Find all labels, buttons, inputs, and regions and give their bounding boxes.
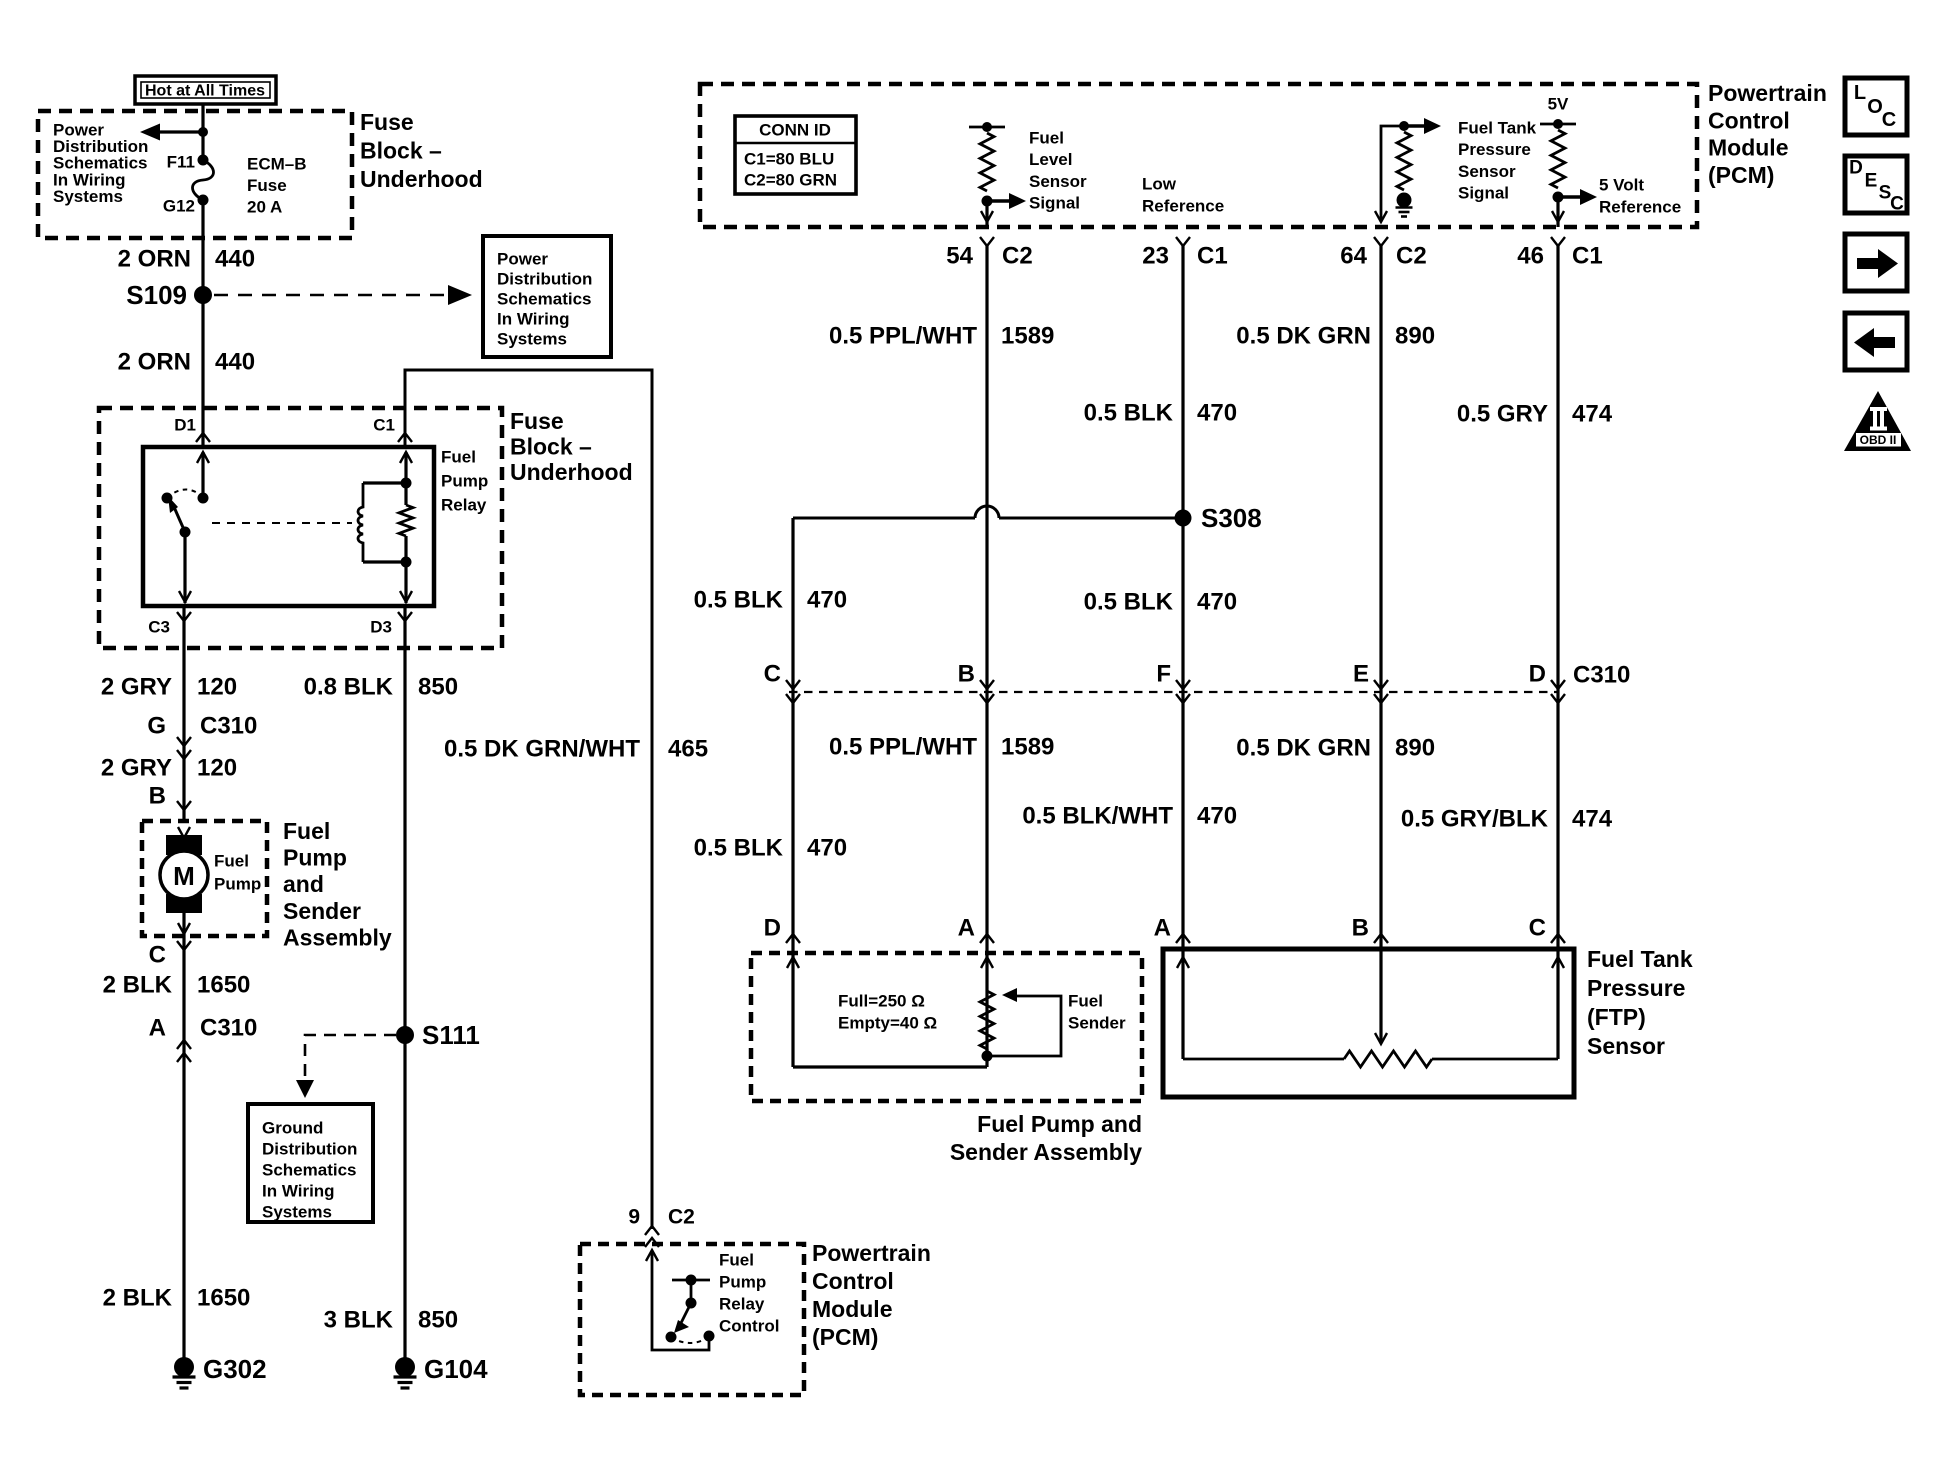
svg-text:0.5 BLK/WHT: 0.5 BLK/WHT [1022,803,1173,830]
svg-text:A: A [149,1015,166,1042]
svg-text:5V: 5V [1548,95,1569,114]
icon box arrow left [1845,313,1907,370]
svg-text:470: 470 [807,587,847,614]
internal arrow down pin 64 [1375,211,1387,222]
svg-text:Sender: Sender [283,898,361,924]
node junction at branch [198,127,208,137]
relay coil top node [401,478,412,489]
R3 bottom node [1553,192,1564,203]
svg-text:Pump: Pump [719,1273,766,1292]
connector chevron pin 23 [1176,237,1190,246]
svg-text:C: C [1890,194,1904,215]
svg-text:Reference: Reference [1599,198,1681,217]
PCM switch blade [680,1303,691,1325]
svg-text:1650: 1650 [197,1285,250,1312]
relay actuation dashed link [212,522,352,524]
ftp internal arrow up A [1177,957,1189,968]
R1 top node [982,122,992,132]
svg-text:(PCM): (PCM) [812,1324,878,1350]
svg-text:1650: 1650 [197,972,250,999]
svg-text:Control: Control [812,1268,894,1294]
relay switch dashed travel arc [167,490,204,499]
svg-text:465: 465 [668,736,708,763]
svg-text:0.5 DK GRN: 0.5 DK GRN [1236,323,1371,350]
reference box ground distribution schematics [248,1104,373,1222]
wire B pin54 to sender A [985,244,988,1067]
fuel pump motor brush top [166,835,202,855]
PCM switch blade arrowhead [674,1320,689,1333]
PCM driver wire [652,1250,709,1350]
svg-text:C2: C2 [1002,243,1033,270]
svg-text:Sender Assembly: Sender Assembly [950,1139,1142,1165]
sender bottom link [793,1065,987,1068]
fuse ECM-B 20A symbol [193,160,214,200]
svg-text:B: B [1352,915,1369,942]
svg-text:C2: C2 [668,1206,695,1229]
svg-text:C2: C2 [1396,243,1427,270]
resistor R1 fuel level [980,133,994,191]
svg-text:C1=80 BLU: C1=80 BLU [744,150,834,169]
R3 top node [1553,119,1563,129]
connector C2 chevrons at PCM [645,1226,659,1235]
svg-text:Systems: Systems [497,330,567,349]
wire D pin46 to ftp C [1556,244,1559,1059]
relay internal arrow down at C3 [179,591,191,602]
svg-text:C310: C310 [200,713,257,740]
relay switch output wire [183,532,186,603]
dashed box PCM (top) [700,84,1697,227]
connector chevron pin 46 [1551,237,1565,246]
R2 top node [1399,121,1409,131]
svg-text:Fuel Tank: Fuel Tank [1587,946,1693,972]
svg-text:C: C [1529,915,1546,942]
relay internal arrow up at D1 [197,452,209,463]
svg-text:D: D [764,915,781,942]
svg-text:Full=250 Ω: Full=250 Ω [838,992,925,1011]
svg-text:Fuse: Fuse [247,176,287,195]
svg-text:0.5 GRY: 0.5 GRY [1457,401,1548,428]
svg-text:Empty=40 Ω: Empty=40 Ω [838,1014,937,1033]
svg-text:C310: C310 [200,1015,257,1042]
svg-text:470: 470 [807,835,847,862]
resistor R3 5v ref [1551,130,1565,188]
R2 internal ground [1397,193,1412,208]
connector chevron C3 [177,612,191,621]
internal arrow down pin 54 [981,211,993,222]
svg-text:Pump: Pump [214,875,261,894]
svg-text:E: E [1353,661,1369,688]
svg-text:Fuel: Fuel [1068,992,1103,1011]
svg-text:(FTP): (FTP) [1587,1004,1646,1030]
svg-text:OBD II: OBD II [1860,433,1897,447]
connector chevron A ftp [1176,934,1190,943]
svg-text:474: 474 [1572,401,1613,428]
reference box power distribution schematics [483,236,611,357]
svg-text:Pump: Pump [441,472,488,491]
PCM switch pivot [686,1298,697,1309]
splice S109 [194,286,212,304]
fuel pump output wire [182,913,185,936]
connector chevron B ftp [1374,934,1388,943]
dashed box fuse block underhood (relay) [99,408,502,648]
svg-text:D: D [1529,661,1546,688]
svg-text:Assembly: Assembly [283,924,392,950]
relay resistor upper stub [404,483,407,505]
svg-text:O: O [1867,96,1883,118]
svg-text:Schematics: Schematics [497,290,592,309]
connector chevron C1 [398,433,412,442]
splice wire S308 horizontal [793,517,1183,520]
dashed box PCM (bottom) [580,1244,804,1395]
connector chevron B [177,801,191,810]
arrow down to ground distribution box [296,1080,314,1098]
relay switch blade [174,507,185,532]
arrow right to power distribution box [448,285,472,305]
svg-text:Pressure: Pressure [1587,975,1685,1001]
svg-text:470: 470 [1197,589,1237,616]
dashed reference wire from S111 [305,1035,396,1082]
icon OBD II triangle [1844,391,1911,451]
svg-text:In Wiring: In Wiring [262,1182,335,1201]
wire pin 46 internal [1556,197,1559,227]
svg-text:D3: D3 [370,618,392,637]
connector chevron pin 54 [980,237,994,246]
svg-text:0.5 PPL/WHT: 0.5 PPL/WHT [829,734,977,761]
relay coil feed wire [404,452,407,483]
svg-text:2 GRY: 2 GRY [101,755,172,782]
svg-text:0.5 BLK: 0.5 BLK [1084,400,1174,427]
svg-text:Fuel: Fuel [1029,129,1064,148]
svg-text:9: 9 [628,1206,640,1229]
svg-text:440: 440 [215,349,255,376]
svg-text:Low: Low [1142,175,1177,194]
dashed reference wire from S109 [214,294,448,297]
wire F pin23 to ftp A [1181,244,1184,1059]
conn id box [735,116,856,194]
svg-text:Pressure: Pressure [1458,140,1531,159]
svg-text:Block –: Block – [360,138,442,164]
PCM switch stem [690,1280,693,1303]
svg-text:Sender: Sender [1068,1014,1126,1033]
svg-text:2 ORN: 2 ORN [118,349,191,376]
ftp sense resistor [1344,1051,1432,1067]
svg-text:Sensor: Sensor [1458,162,1516,181]
svg-text:54: 54 [946,243,973,270]
svg-text:474: 474 [1572,806,1613,833]
icon box arrow right [1845,234,1907,291]
svg-text:Fuse: Fuse [510,408,564,434]
svg-text:S308: S308 [1201,503,1262,533]
node G12 [198,195,209,206]
relay switch feed wire [201,452,204,498]
svg-text:B: B [149,783,166,810]
svg-text:Module: Module [1708,135,1789,161]
wire C1 feed to PCM control [405,370,652,1229]
svg-text:890: 890 [1395,323,1435,350]
wire 2 BLK 1650 upper [182,936,185,1367]
svg-text:Fuel Tank: Fuel Tank [1458,119,1537,138]
svg-text:3 BLK: 3 BLK [324,1307,394,1334]
svg-text:0.5 BLK: 0.5 BLK [694,587,784,614]
svg-text:S111: S111 [422,1020,480,1050]
svg-text:Systems: Systems [262,1203,332,1222]
svg-text:Systems: Systems [53,187,123,206]
svg-text:Distribution: Distribution [497,270,592,289]
svg-text:Fuel: Fuel [719,1251,754,1270]
svg-text:2 BLK: 2 BLK [103,972,173,999]
fuel pump feed arrow [178,827,190,838]
node F11 [198,155,209,166]
svg-text:64: 64 [1340,243,1367,270]
relay internal arrow down at D3 [400,591,412,602]
R1 bottom node [982,196,993,207]
svg-text:Signal: Signal [1029,194,1080,213]
relay coil output wire [404,562,407,603]
PCM switch contact right [704,1331,715,1342]
resistor R2 ftp pull [1397,132,1411,190]
wire 0.8 BLK 850 [403,606,406,1367]
svg-text:D: D [1849,158,1863,179]
ftp internal arrow up C [1552,957,1564,968]
svg-text:E: E [1865,171,1878,192]
svg-text:850: 850 [418,1307,458,1334]
svg-text:M: M [173,861,195,891]
dashed box fuse block underhood (top) [38,111,352,238]
svg-text:Fuel: Fuel [283,818,330,844]
svg-text:Pump: Pump [283,845,347,871]
connector C310 G chevrons [177,737,191,746]
relay switch common contact [180,527,191,538]
motor M circle [160,851,208,899]
R1 signal arrowhead [1009,193,1026,209]
sender internal arrow up D [787,957,799,968]
svg-text:2 BLK: 2 BLK [103,1285,173,1312]
icon box LOC [1845,78,1907,135]
svg-text:C: C [1882,109,1896,131]
svg-text:Signal: Signal [1458,184,1509,203]
PCM internal arrow up [646,1250,658,1261]
R3 ref arrowhead [1580,189,1597,205]
R1 signal arrow line [987,199,1010,202]
svg-text:Ground: Ground [262,1119,323,1138]
svg-text:C1: C1 [1572,243,1603,270]
sender internal arrow up A [981,957,993,968]
svg-text:G12: G12 [163,197,195,216]
svg-text:and: and [283,871,324,897]
svg-text:Hot at All Times: Hot at All Times [145,83,265,100]
connector chevron pin 64 [1374,237,1388,246]
fuel pump output arrow [178,923,190,934]
svg-text:(PCM): (PCM) [1708,162,1774,188]
svg-text:CONN ID: CONN ID [759,121,831,140]
splice S111 [396,1026,414,1044]
svg-text:A: A [1154,915,1171,942]
svg-text:120: 120 [197,674,237,701]
relay switch blade arrowhead [168,496,178,513]
R3 top stub [1540,123,1576,126]
label box Hot at All Times [135,76,276,104]
svg-text:C3: C3 [148,618,170,637]
wire E pin64 to ftp B [1379,244,1382,1042]
svg-text:S109: S109 [126,280,187,310]
svg-text:F: F [1156,661,1171,688]
dashed box fuel pump and sender assembly [751,953,1142,1101]
wire pin 54 internal [985,201,988,227]
connector C310 dashed line [789,691,1558,693]
icon box DESC [1845,156,1907,213]
ftp wiper arrow down [1375,1033,1387,1044]
relay resistor lower stub [404,536,407,562]
connector chevron A sender [980,934,994,943]
connector chevron D1 [196,433,210,442]
svg-text:5 Volt: 5 Volt [1599,176,1644,195]
connector chevron D sender [786,934,800,943]
svg-text:0.5 BLK: 0.5 BLK [1084,589,1174,616]
wire C branch down [791,518,794,1067]
svg-text:20 A: 20 A [247,198,282,217]
svg-text:Relay: Relay [441,496,487,515]
connector chevron C ftp [1551,934,1565,943]
wire battery feed [201,104,204,160]
svg-text:890: 890 [1395,735,1435,762]
connector chevron D3 [398,612,412,621]
svg-text:850: 850 [418,674,458,701]
svg-text:Underhood: Underhood [360,166,483,192]
wire branch to power distribution [150,130,203,133]
FTP signal arrow line [1404,124,1424,127]
svg-text:F11: F11 [167,153,195,172]
relay box fuel pump relay [143,447,434,606]
fuel pump motor brush bottom [166,894,202,913]
splice S308 [1175,510,1192,527]
PCM switch dashed travel arc [671,1337,709,1343]
svg-text:2 GRY: 2 GRY [101,674,172,701]
svg-text:C310: C310 [1573,662,1630,689]
svg-text:C1: C1 [373,416,395,435]
svg-text:440: 440 [215,246,255,273]
fuel sender resistor stub [985,1049,988,1056]
relay coil top link [363,481,406,484]
svg-text:ECM–B: ECM–B [247,155,307,174]
svg-text:0.5 DK GRN: 0.5 DK GRN [1236,735,1371,762]
ground G302 [174,1357,194,1377]
svg-text:Control: Control [1708,107,1790,133]
svg-text:Fuel Pump and: Fuel Pump and [977,1111,1142,1137]
svg-text:0.5 DK GRN/WHT: 0.5 DK GRN/WHT [444,736,640,763]
svg-text:1589: 1589 [1001,323,1054,350]
svg-text:23: 23 [1142,243,1169,270]
svg-text:Reference: Reference [1142,197,1224,216]
svg-text:0.5 GRY/BLK: 0.5 GRY/BLK [1401,806,1549,833]
svg-text:B: B [958,661,975,688]
svg-text:2 ORN: 2 ORN [118,246,191,273]
wire 2 GRY 120 [182,606,185,821]
svg-text:0.5 PPL/WHT: 0.5 PPL/WHT [829,323,977,350]
svg-text:46: 46 [1517,243,1544,270]
connector chevron C [177,941,191,950]
svg-text:470: 470 [1197,400,1237,427]
dashed box fuel pump [142,821,267,936]
svg-text:Powertrain: Powertrain [812,1240,931,1266]
svg-text:C: C [149,942,166,969]
ftp internal wire bottom [1183,1058,1344,1061]
svg-text:Fuel: Fuel [214,852,249,871]
svg-text:C1: C1 [1197,243,1228,270]
svg-text:L: L [1854,82,1866,104]
svg-text:G302: G302 [203,1354,267,1384]
relay coil bottom node [401,557,412,568]
FTP signal arrowhead [1424,118,1441,134]
fuel sender wiper bracket [987,996,1061,1056]
svg-text:Powertrain: Powertrain [1708,80,1827,106]
FTP signal internal wire [1381,126,1404,222]
relay coil [358,483,363,562]
svg-text:Sensor: Sensor [1587,1033,1665,1059]
relay coil bottom link [363,560,406,563]
relay internal arrow up at C1 [400,452,412,463]
fuel sender bottom node [982,1051,993,1062]
fuel sender resistor [980,991,994,1049]
box fuel tank pressure sensor [1163,949,1574,1097]
svg-text:Relay: Relay [719,1295,765,1314]
svg-text:0.8 BLK: 0.8 BLK [304,674,394,701]
svg-text:Control: Control [719,1317,779,1336]
svg-text:Schematics: Schematics [262,1161,357,1180]
svg-text:G104: G104 [424,1354,488,1384]
relay switch fixed contact [198,493,209,504]
PCM switch top lead [672,1279,710,1282]
internal arrow down pin 46 [1552,211,1564,222]
relay switch open contact [162,493,173,504]
svg-text:D1: D1 [174,416,196,435]
svg-text:Fuse: Fuse [360,109,414,135]
fuel sender wiper arrowhead [1002,988,1017,1002]
R1 top stub [969,126,1005,129]
PCM switch top contact [686,1275,697,1286]
svg-text:A: A [958,915,975,942]
svg-text:Block –: Block – [510,434,592,460]
svg-text:Sensor: Sensor [1029,172,1087,191]
svg-text:Level: Level [1029,150,1072,169]
svg-text:Underhood: Underhood [510,459,633,485]
svg-text:1589: 1589 [1001,734,1054,761]
PCM switch contact left [666,1332,677,1343]
arrow left to power distribution [140,124,160,141]
svg-text:Distribution: Distribution [262,1140,357,1159]
connector C310 A chevrons [177,1040,191,1049]
svg-text:G: G [147,713,166,740]
svg-text:470: 470 [1197,803,1237,830]
svg-text:Module: Module [812,1296,893,1322]
svg-text:Power: Power [497,250,548,269]
svg-text:120: 120 [197,755,237,782]
wire 2 ORN 440 upper [201,200,204,447]
svg-text:C2=80 GRN: C2=80 GRN [744,171,837,190]
ground G104 [395,1357,415,1377]
svg-text:Fuel: Fuel [441,448,476,467]
R3 ref arrow line [1558,195,1580,198]
svg-text:C: C [764,661,781,688]
svg-text:0.5 BLK: 0.5 BLK [694,835,784,862]
svg-text:In Wiring: In Wiring [497,310,570,329]
relay resistor [399,505,413,536]
